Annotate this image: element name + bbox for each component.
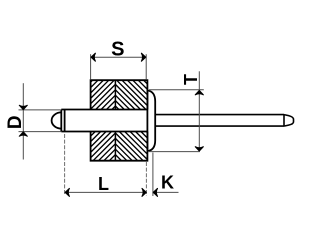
svg-text:S: S <box>111 39 124 61</box>
plate left (hatch /) top-left quadrant <box>91 80 116 109</box>
dimension S: arrows <box>91 53 95 61</box>
plate left (hatch /) bottom-left quadrant <box>91 132 116 161</box>
dimension T: line <box>198 71 200 151</box>
svg-text:D: D <box>5 115 26 129</box>
svg-text:T: T <box>181 74 201 85</box>
plate right (hatch \) bottom-right quadrant <box>115 132 147 161</box>
mandrel head dome <box>52 112 62 128</box>
dimension K: trailer line <box>153 191 178 193</box>
dimension D: line <box>22 83 24 159</box>
dimension K: arrow <box>153 188 157 196</box>
mandrel stem <box>155 115 293 127</box>
joint line between the two plates <box>114 80 116 161</box>
dimension T: extension lines <box>148 90 204 152</box>
dimension K: extension line <box>152 153 154 197</box>
svg-text:K: K <box>161 173 174 193</box>
dimension D: extension lines <box>19 110 62 132</box>
rivet flange (head) <box>147 90 155 151</box>
dimension L: arrows <box>65 188 69 196</box>
dimension T: arrows <box>195 91 203 95</box>
plate right (hatch \) top-right quadrant <box>115 80 147 109</box>
dimension S: extension lines <box>91 54 147 79</box>
svg-text:L: L <box>98 174 109 194</box>
plates outline (upper and lower blocks) <box>91 80 148 161</box>
dimension D: arrows <box>19 105 27 109</box>
rivet body tube <box>61 110 147 132</box>
dimension S: line <box>91 56 146 58</box>
dimension L: extension lines <box>65 134 147 196</box>
dimension L: line <box>65 191 147 193</box>
